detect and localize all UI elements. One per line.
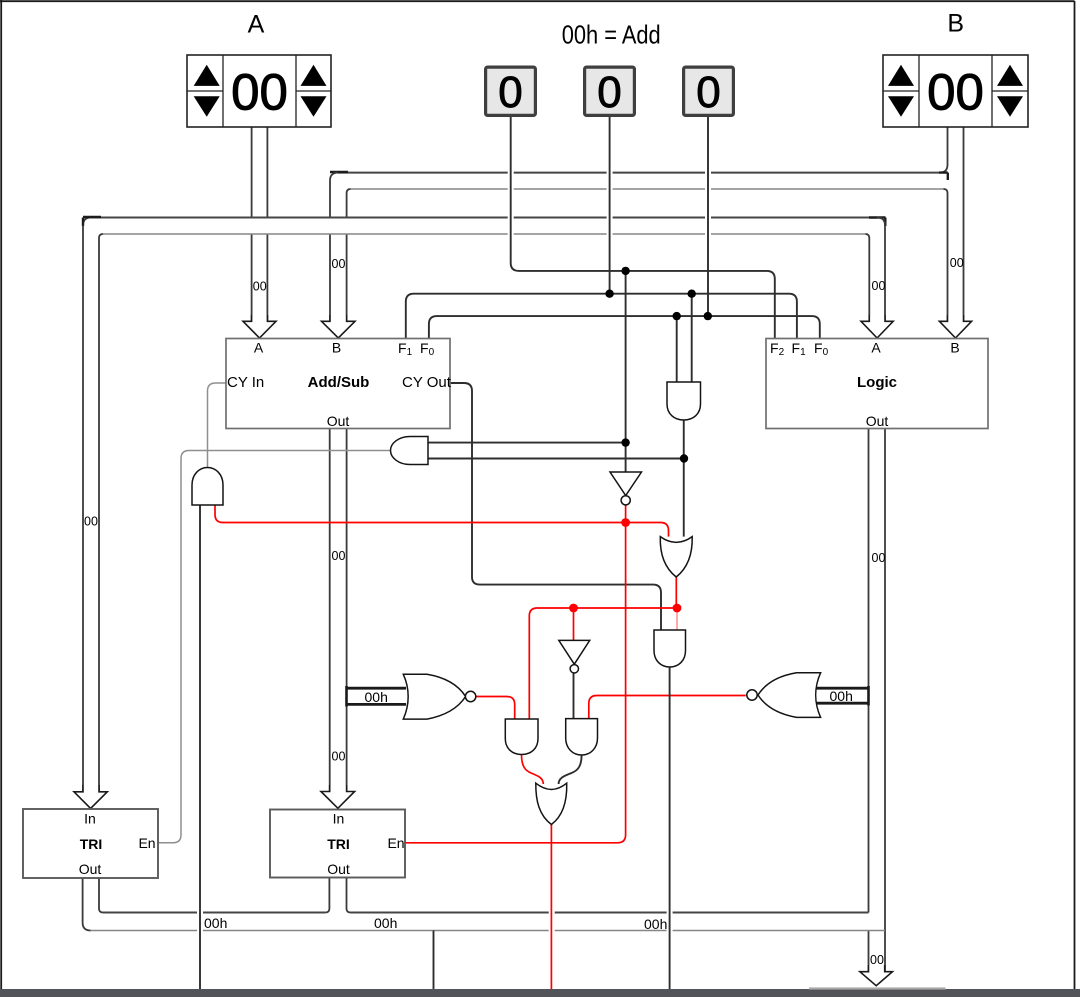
NOR U11 body (left-pointing) xyxy=(758,673,821,718)
block TRI U15 (left tristate) xyxy=(23,809,158,878)
input widget B box xyxy=(883,55,1028,127)
bus bottom channel top wall xyxy=(103,912,869,914)
svg-text:00: 00 xyxy=(870,953,884,967)
wire red node R2 horizontal xyxy=(529,608,677,719)
AND U9 (down-facing) xyxy=(566,719,598,755)
wire AND U8 output red S-curve to OR U12 xyxy=(522,755,544,785)
bus bottom channel bottom wall xyxy=(91,930,885,932)
canvas border top xyxy=(0,0,1075,2)
widget A down triangle left xyxy=(194,96,220,117)
svg-text:00: 00 xyxy=(231,64,288,121)
svg-text:0: 0 xyxy=(696,68,720,117)
wire inverter U4 output red to node R1 xyxy=(625,505,627,522)
wire AND U1 left input long vertical to bottom xyxy=(199,505,201,989)
junction U2 top input xyxy=(621,438,629,446)
junction F1 net tap xyxy=(688,290,696,298)
junction F0 net tap xyxy=(673,312,681,320)
bus Add/Sub Out: vertical down to TRI2 In xyxy=(330,429,347,792)
svg-text:A: A xyxy=(248,11,265,39)
bus channel 2 right corner into Logic A xyxy=(865,218,885,322)
scrollbar lighter strip xyxy=(809,987,946,989)
wire AND U9 output S-curve to OR U12 xyxy=(559,755,582,784)
NOR U10 bubble xyxy=(465,691,475,701)
inverter U6 triangle xyxy=(559,640,590,664)
OR U12 (down-facing) xyxy=(536,783,567,824)
wire crossing white casings over bus channels xyxy=(200,167,708,936)
SECTION: dots xyxy=(569,267,712,613)
widget A up triangle right xyxy=(301,65,327,86)
svg-text:Out: Out xyxy=(327,861,350,877)
canvas border right xyxy=(1074,1,1076,989)
bus A input: vertical from widget A down to Add/Sub A xyxy=(252,127,268,321)
block Add/Sub U13 xyxy=(226,339,450,429)
wire AND U2 bottom input line xyxy=(428,458,684,460)
svg-text:B: B xyxy=(947,10,964,38)
bus Logic A arrowhead xyxy=(861,315,893,338)
AND U3 (down-facing, F decode) xyxy=(667,382,701,420)
AND U7 (down-facing) xyxy=(654,630,686,667)
NOR U11 bubble xyxy=(747,690,757,700)
junction F2 net xyxy=(621,267,629,275)
wire NOR U10 tap joint on bus wall xyxy=(345,686,348,707)
bus Logic Out: vertical down xyxy=(869,429,886,972)
widget B up triangle left xyxy=(888,65,914,86)
button F2 xyxy=(486,67,536,115)
bus TRI2 Out down to bottom channel xyxy=(325,878,350,913)
bus Add/Sub B arrowhead xyxy=(322,315,356,338)
bus channel 2 (A operand): left corner above TRI1 xyxy=(83,218,103,239)
svg-text:B: B xyxy=(332,340,341,356)
svg-text:En: En xyxy=(387,835,404,851)
bus TRI1 Out down to bottom channel xyxy=(83,878,103,931)
junction U2 bottom input xyxy=(680,454,688,462)
junction F0 net button xyxy=(704,312,712,320)
bus B input: vertical from widget B down, to elbow and Logic B xyxy=(940,127,964,321)
widget A cell dividers xyxy=(187,55,331,127)
bus elbow into Add/Sub B vertical xyxy=(330,173,351,322)
wire tap F0 net down to AND U3 left input xyxy=(676,316,678,382)
wire button F2 down and across to Logic F2 xyxy=(511,117,775,338)
inverter U6 bubble xyxy=(570,665,578,673)
widget B down triangle left xyxy=(888,96,914,117)
bus channel B to Add/Sub B: top wall xyxy=(338,172,940,174)
svg-text:En: En xyxy=(138,835,155,851)
svg-text:00h: 00h xyxy=(374,915,397,931)
svg-text:0: 0 xyxy=(498,68,522,117)
bus A arrowhead into Add/Sub A xyxy=(243,315,276,338)
junction red R3 xyxy=(673,604,682,613)
junction red R2 xyxy=(569,604,578,613)
svg-text:Out: Out xyxy=(79,861,102,877)
SECTION: wires xyxy=(158,117,869,989)
wire AND U2 top input line xyxy=(428,442,626,444)
canvas border left xyxy=(0,0,2,989)
wire NOR U10 input taps from Add/Sub Out bus xyxy=(347,688,407,704)
svg-text:A: A xyxy=(871,340,881,356)
block Logic U14 xyxy=(766,339,988,429)
input widget A box xyxy=(187,55,331,127)
wire OR U12 output red down to bottom xyxy=(550,825,552,990)
junction red R1 xyxy=(621,518,630,527)
widget B down triangle right xyxy=(997,96,1023,117)
svg-text:00: 00 xyxy=(253,280,267,294)
wire F0 net: Add/Sub F0 up across to Logic F0 xyxy=(429,316,820,338)
svg-text:CY Out: CY Out xyxy=(402,374,452,391)
svg-text:Add/Sub: Add/Sub xyxy=(308,374,370,391)
svg-text:00h: 00h xyxy=(204,915,227,931)
svg-text:00h: 00h xyxy=(365,689,388,705)
bus corner darkening at channel 2 ends xyxy=(83,217,886,226)
wire button F0 down to F0 net xyxy=(707,117,709,316)
svg-text:In: In xyxy=(84,811,96,827)
bus channel B bottom wall xyxy=(351,188,944,190)
wire red node R1 down to TRI2 En xyxy=(405,523,626,843)
button F1 xyxy=(585,67,635,115)
SECTION: blocks xyxy=(23,339,988,879)
svg-text:B: B xyxy=(950,340,959,356)
bus B arrowhead into Logic B xyxy=(939,315,971,338)
wire AND U7 output down to bottom xyxy=(669,667,671,989)
bus corner darkening at B elbow and Add/Sub B elbow xyxy=(330,172,948,180)
wire NOR U11 output red to AND U9 input xyxy=(589,696,746,719)
OR U5 (down-facing) xyxy=(660,537,692,577)
AND U1 (up-facing, drives CY In) xyxy=(192,468,223,506)
svg-text:TRI: TRI xyxy=(80,836,103,852)
widget A down triangle right xyxy=(301,96,327,117)
bus channel 2 bottom wall xyxy=(103,233,865,235)
svg-text:00: 00 xyxy=(927,64,984,121)
bottom status/scroll bar xyxy=(0,989,1080,997)
wire tap F1 net down to AND U3 right input xyxy=(691,294,693,382)
SECTION: gates xyxy=(192,382,821,825)
NOR U10 body (right-pointing) xyxy=(403,674,465,719)
SECTION: labels xyxy=(79,10,964,968)
svg-text:0: 0 xyxy=(597,68,621,117)
SECTION: widgets xyxy=(187,55,1028,127)
bus output arrowhead bottom right xyxy=(860,965,893,986)
wire AND U3 output down to OR U5 xyxy=(683,420,685,537)
wire CY In from AND U1 output (weak gray) xyxy=(208,383,227,468)
wire inverter U6 output down to AND U9 input xyxy=(573,673,575,719)
wire CY Out path down and right to AND U7 xyxy=(450,383,661,630)
svg-text:00: 00 xyxy=(84,515,98,529)
wire OR U5 output red down to node R3 xyxy=(675,577,677,608)
wire AND U1 right input red from node R1 xyxy=(215,505,669,537)
svg-text:Out: Out xyxy=(866,413,889,429)
bus TRI1 In arrowhead xyxy=(74,785,107,809)
inverter U4 bubble xyxy=(621,496,630,505)
svg-text:00h: 00h xyxy=(830,688,853,704)
wire NOR U11 tap joint on bus wall xyxy=(867,686,870,706)
svg-text:00: 00 xyxy=(332,750,346,764)
AND U2 (left-facing) xyxy=(391,437,429,465)
button F0 xyxy=(684,67,734,115)
svg-text:Out: Out xyxy=(327,413,350,429)
svg-text:Logic: Logic xyxy=(857,374,897,391)
svg-text:00: 00 xyxy=(332,549,346,563)
bus channel 2 top wall xyxy=(91,217,877,219)
svg-text:TRI: TRI xyxy=(327,836,350,852)
svg-text:00: 00 xyxy=(332,257,346,271)
svg-text:CY In: CY In xyxy=(227,374,264,391)
wire node R3 weak red down to AND U7 xyxy=(676,608,678,630)
bus TRI2 In arrowhead xyxy=(321,785,355,808)
wire NOR U11 input taps from Logic Out bus xyxy=(815,688,869,703)
svg-text:00: 00 xyxy=(872,279,886,293)
wire node F2 tap down to inverter U4 input xyxy=(625,271,627,472)
svg-text:A: A xyxy=(254,340,264,356)
widget B cell dividers xyxy=(883,55,1028,127)
inverter U4 triangle xyxy=(610,472,642,496)
wire AND U2 output to TRI1 En (weak gray) xyxy=(158,451,391,843)
widget B up triangle right xyxy=(997,65,1023,86)
wire stub from bottom channel down xyxy=(433,931,435,990)
SECTION: buses xyxy=(74,127,972,986)
wire NOR U10 output red to AND U8 input xyxy=(475,697,514,720)
svg-text:00: 00 xyxy=(872,551,886,565)
bus left (to TRI1 In): vertical walls xyxy=(83,226,99,792)
svg-text:In: In xyxy=(333,811,345,827)
block TRI U16 (right tristate) xyxy=(270,810,405,878)
widget A up triangle left xyxy=(194,65,220,86)
wire node R2 red down to inverter U6 input xyxy=(573,608,575,640)
svg-text:00h = Add: 00h = Add xyxy=(562,20,661,50)
AND U8 (down-facing) xyxy=(505,719,538,755)
junction F1 net button xyxy=(605,290,613,298)
wire F1 net: Add/Sub F1 up across to Logic F1 xyxy=(406,294,797,338)
wire button F1 down to F1 net xyxy=(609,117,611,294)
svg-text:00: 00 xyxy=(950,256,964,270)
svg-text:00h: 00h xyxy=(644,916,667,932)
